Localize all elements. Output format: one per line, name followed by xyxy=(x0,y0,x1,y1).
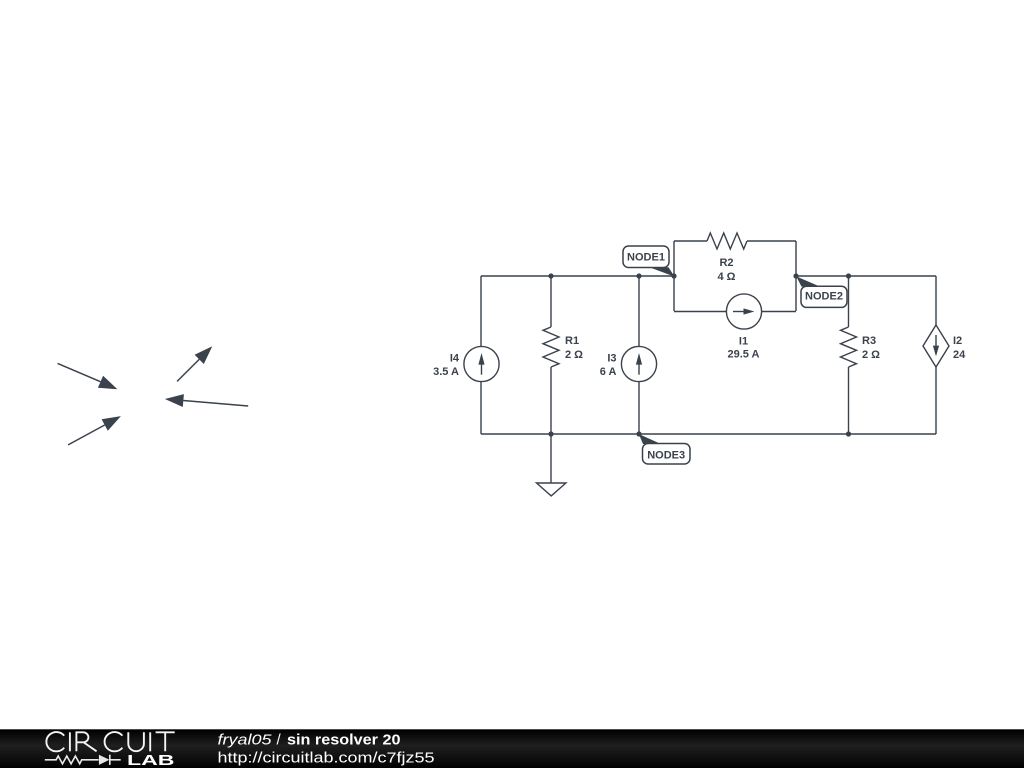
svg-text:29.5 A: 29.5 A xyxy=(727,349,759,361)
svg-text:4 Ω: 4 Ω xyxy=(718,271,736,283)
wire top rail left xyxy=(481,275,674,277)
wire I3 branch xyxy=(638,276,640,434)
svg-text:R3: R3 xyxy=(862,335,876,347)
svg-text:sin resolver 20: sin resolver 20 xyxy=(287,732,401,749)
node NODE3 callout xyxy=(639,434,690,464)
dependent current source I2 diamond xyxy=(923,325,949,367)
svg-text:NODE2: NODE2 xyxy=(805,290,843,302)
resistor R1 xyxy=(543,327,559,367)
wire bottom rail xyxy=(481,433,936,435)
svg-text:24: 24 xyxy=(953,349,966,361)
wire R1 branch top xyxy=(550,276,552,327)
junction dot bottom I3 (NODE3) xyxy=(636,431,641,436)
svg-text:LAB: LAB xyxy=(127,753,175,768)
junction dot bottom R1 xyxy=(548,431,553,436)
annotation arrow A1 xyxy=(58,363,118,389)
current source I3 circle xyxy=(621,346,656,381)
svg-text:2 Ω: 2 Ω xyxy=(565,349,583,361)
junction dot NODE1 xyxy=(671,273,676,278)
wire R3 branch top xyxy=(848,276,850,327)
dependent current source I2 arrow xyxy=(933,335,939,356)
ground xyxy=(537,434,566,496)
wire R2 loop bottom (I1 branch) xyxy=(674,311,796,313)
wire R3 branch bottom xyxy=(848,367,850,434)
svg-text:6 A: 6 A xyxy=(600,366,617,378)
svg-text:I1: I1 xyxy=(739,336,748,348)
logo CIRCUIT wordmark xyxy=(46,732,174,751)
svg-text:2 Ω: 2 Ω xyxy=(862,349,880,361)
node NODE2 callout xyxy=(796,276,847,307)
resistor R3 xyxy=(841,327,857,367)
junction dot top R3 xyxy=(846,273,851,278)
wire R1 branch bottom xyxy=(550,367,552,434)
svg-text:NODE1: NODE1 xyxy=(627,251,665,263)
svg-text:http://circuitlab.com/c7fjz55: http://circuitlab.com/c7fjz55 xyxy=(218,750,435,767)
junction dot top I3 xyxy=(636,273,641,278)
svg-text:3.5 A: 3.5 A xyxy=(433,366,459,378)
current source I4 arrow xyxy=(478,353,484,375)
svg-text:I4: I4 xyxy=(450,353,460,365)
annotation arrow A2 xyxy=(68,416,121,445)
wire left rail xyxy=(480,276,482,434)
junction dot NODE2 xyxy=(793,273,798,278)
wire R2 loop left side xyxy=(673,241,675,311)
junction dot bottom R3 xyxy=(846,431,851,436)
svg-text:NODE3: NODE3 xyxy=(647,449,685,461)
logo resistor-diode glyph xyxy=(45,755,121,765)
annotation arrow A3 xyxy=(177,346,212,381)
annotation arrow A4 xyxy=(165,394,248,407)
svg-text:R2: R2 xyxy=(719,257,733,269)
junction dot top R1 xyxy=(548,273,553,278)
svg-text:I2: I2 xyxy=(953,335,962,347)
svg-text:fryal05: fryal05 xyxy=(218,732,273,749)
current source I1 arrow xyxy=(733,308,754,314)
current source I3 arrow xyxy=(636,353,642,375)
current source I1 circle xyxy=(726,294,761,329)
wire right rail xyxy=(935,276,937,434)
svg-text:R1: R1 xyxy=(565,335,579,347)
wire top rail right xyxy=(796,275,936,277)
footer bar background xyxy=(0,729,1024,768)
resistor R2 xyxy=(707,233,747,249)
svg-text:I3: I3 xyxy=(607,353,616,365)
wire R2 loop top right lead xyxy=(747,240,796,242)
wire R2 loop right side xyxy=(795,241,797,311)
wire R2 loop top left lead xyxy=(674,240,707,242)
node NODE1 callout xyxy=(623,246,675,277)
current source I4 circle xyxy=(464,346,499,381)
